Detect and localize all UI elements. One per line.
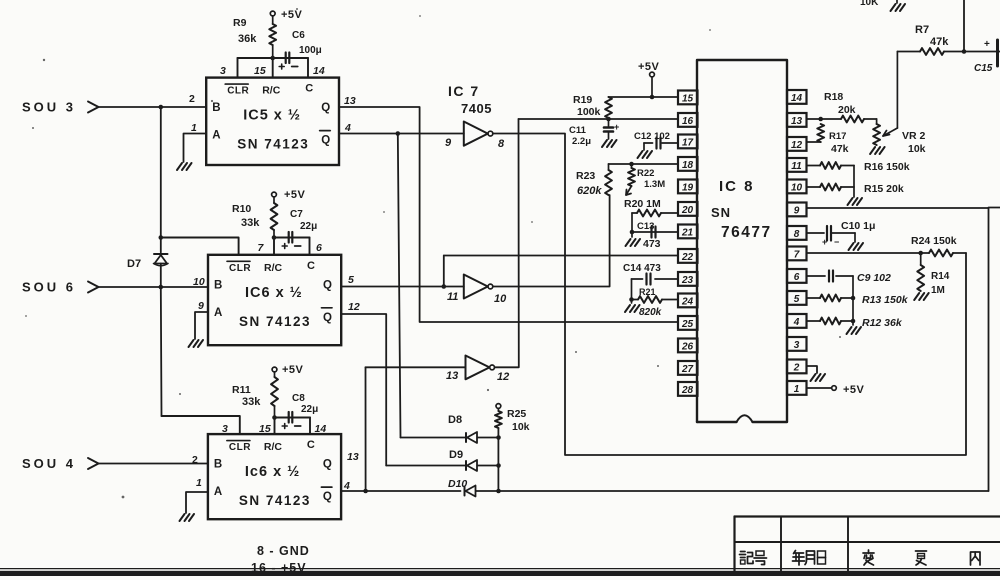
- svg-text:25: 25: [681, 319, 694, 330]
- svg-text:20k: 20k: [838, 104, 856, 116]
- svg-text:47k: 47k: [930, 36, 949, 48]
- svg-text:22μ: 22μ: [301, 404, 318, 415]
- svg-text:R20 1M: R20 1M: [624, 198, 661, 210]
- svg-text:Ic6 x ½: Ic6 x ½: [245, 464, 300, 480]
- svg-text:36k: 36k: [238, 33, 257, 45]
- svg-text:8 - GND: 8 - GND: [257, 544, 310, 558]
- svg-text:+5V: +5V: [638, 61, 660, 73]
- svg-text:5: 5: [348, 274, 354, 286]
- svg-text:C: C: [305, 83, 313, 95]
- svg-text:21: 21: [681, 228, 694, 239]
- svg-text:R24 150k: R24 150k: [911, 235, 957, 247]
- svg-text:Q: Q: [323, 491, 332, 503]
- svg-text:1M: 1M: [931, 285, 945, 296]
- svg-text:23: 23: [681, 275, 694, 286]
- svg-text:C: C: [307, 439, 315, 451]
- svg-text:3: 3: [222, 423, 228, 435]
- svg-text:13: 13: [791, 116, 803, 127]
- svg-text:14: 14: [313, 65, 325, 77]
- svg-text:22μ: 22μ: [300, 221, 317, 232]
- svg-text:SN 74123: SN 74123: [239, 314, 311, 329]
- svg-text:8: 8: [498, 138, 505, 150]
- svg-text:R/C: R/C: [264, 262, 283, 274]
- svg-text:R7: R7: [915, 24, 929, 36]
- svg-text:R11: R11: [232, 384, 251, 396]
- svg-text:7: 7: [794, 250, 800, 261]
- svg-text:18: 18: [682, 160, 694, 171]
- svg-text:B: B: [214, 459, 222, 471]
- svg-text:2: 2: [793, 363, 800, 374]
- svg-text:13: 13: [446, 370, 458, 382]
- svg-text:SOU 3: SOU 3: [22, 100, 76, 115]
- svg-text:28: 28: [681, 385, 694, 396]
- svg-text:+5V: +5V: [284, 189, 306, 201]
- svg-text:1: 1: [794, 384, 800, 395]
- svg-text:R21: R21: [639, 287, 656, 297]
- svg-text:473: 473: [643, 238, 661, 250]
- svg-text:IC5 x ½: IC5 x ½: [243, 108, 301, 124]
- svg-text:33k: 33k: [241, 217, 260, 229]
- svg-text:20: 20: [681, 205, 694, 216]
- svg-text:R12 36k: R12 36k: [862, 317, 903, 329]
- svg-text:24: 24: [681, 297, 694, 308]
- svg-text:+5V: +5V: [282, 364, 304, 376]
- svg-text:+: +: [984, 39, 990, 50]
- svg-text:SN: SN: [711, 205, 731, 220]
- svg-text:620k: 620k: [577, 185, 602, 197]
- svg-text:+5V: +5V: [281, 9, 303, 21]
- svg-text:2: 2: [192, 454, 198, 466]
- svg-text:R14: R14: [931, 271, 950, 282]
- svg-text:R/C: R/C: [262, 85, 281, 97]
- svg-text:C6: C6: [292, 30, 305, 41]
- svg-text:2: 2: [189, 93, 195, 105]
- svg-text:C12 102: C12 102: [634, 131, 670, 142]
- svg-text:9: 9: [198, 300, 204, 312]
- svg-text:C13: C13: [637, 221, 654, 232]
- svg-text:10k: 10k: [908, 143, 926, 155]
- svg-text:47k: 47k: [831, 143, 849, 155]
- svg-text:D9: D9: [449, 449, 463, 461]
- svg-text:+: +: [822, 237, 827, 247]
- svg-text:14: 14: [315, 423, 327, 435]
- svg-text:C8: C8: [292, 393, 305, 404]
- svg-text:17: 17: [682, 138, 694, 149]
- svg-text:Q: Q: [321, 135, 330, 147]
- svg-text:R10: R10: [232, 203, 251, 215]
- svg-text:CLR: CLR: [227, 86, 249, 97]
- svg-text:14: 14: [791, 93, 803, 104]
- svg-text:5: 5: [794, 294, 800, 305]
- svg-text:1.3M: 1.3M: [644, 179, 665, 190]
- svg-text:R13 150k: R13 150k: [862, 294, 909, 306]
- svg-text:11: 11: [447, 291, 458, 303]
- svg-text:R17: R17: [829, 131, 846, 142]
- svg-text:11: 11: [791, 161, 802, 172]
- svg-text:R25: R25: [507, 408, 526, 420]
- svg-text:SOU 6: SOU 6: [22, 280, 76, 295]
- svg-text:SN 74123: SN 74123: [239, 493, 311, 508]
- svg-text:R9: R9: [233, 17, 247, 29]
- svg-text:15: 15: [259, 423, 271, 435]
- svg-text:+5V: +5V: [843, 384, 865, 396]
- svg-text:10: 10: [791, 183, 803, 194]
- svg-text:Q: Q: [323, 459, 332, 471]
- svg-text:IC6 x ½: IC6 x ½: [245, 285, 303, 301]
- svg-text:SN 74123: SN 74123: [237, 137, 309, 152]
- svg-text:2.2μ: 2.2μ: [572, 136, 591, 147]
- svg-text:D7: D7: [127, 258, 141, 270]
- svg-text:10: 10: [494, 293, 507, 305]
- svg-text:3: 3: [220, 65, 226, 77]
- svg-text:9: 9: [794, 206, 800, 217]
- svg-text:CLR: CLR: [229, 442, 251, 453]
- svg-text:C10 1μ: C10 1μ: [841, 220, 875, 232]
- svg-text:27: 27: [681, 364, 694, 375]
- svg-text:D8: D8: [448, 414, 462, 426]
- svg-text:3: 3: [794, 340, 800, 351]
- svg-text:C15: C15: [974, 63, 993, 74]
- svg-text:4: 4: [793, 317, 800, 328]
- svg-text:10k: 10k: [512, 421, 530, 433]
- svg-text:+: +: [614, 122, 619, 132]
- svg-text:C14 473: C14 473: [623, 263, 661, 274]
- svg-text:A: A: [214, 486, 222, 498]
- svg-text:Q: Q: [321, 102, 330, 114]
- svg-text:26: 26: [681, 342, 694, 353]
- svg-text:SOU 4: SOU 4: [22, 456, 76, 471]
- svg-text:R19: R19: [573, 94, 592, 106]
- svg-text:−: −: [834, 237, 839, 247]
- svg-text:12: 12: [791, 140, 803, 151]
- svg-text:9: 9: [445, 137, 452, 149]
- svg-text:12: 12: [348, 301, 360, 313]
- svg-text:A: A: [214, 307, 222, 319]
- svg-text:A: A: [212, 130, 220, 142]
- svg-text:22: 22: [681, 252, 694, 263]
- svg-text:8: 8: [794, 229, 800, 240]
- svg-text:R22: R22: [637, 168, 654, 179]
- svg-text:820k: 820k: [639, 307, 662, 318]
- svg-text:R18: R18: [824, 91, 843, 103]
- svg-text:R/C: R/C: [264, 441, 283, 453]
- svg-text:4: 4: [344, 122, 351, 134]
- svg-text:1: 1: [191, 122, 197, 134]
- svg-text:C: C: [307, 260, 315, 272]
- svg-text:16: 16: [682, 116, 694, 127]
- svg-text:15: 15: [254, 65, 266, 77]
- svg-text:R16 150k: R16 150k: [864, 161, 910, 173]
- svg-text:Q: Q: [323, 312, 332, 324]
- svg-text:19: 19: [682, 183, 694, 194]
- svg-text:B: B: [214, 279, 222, 291]
- svg-text:100μ: 100μ: [299, 45, 322, 56]
- svg-text:10K: 10K: [860, 0, 879, 8]
- svg-text:Q: Q: [323, 279, 332, 291]
- svg-text:CLR: CLR: [229, 263, 251, 274]
- svg-text:33k: 33k: [242, 396, 261, 408]
- svg-text:13: 13: [347, 451, 359, 463]
- svg-text:6: 6: [316, 242, 322, 254]
- svg-text:12: 12: [497, 371, 509, 383]
- svg-text:76477: 76477: [721, 224, 772, 241]
- svg-text:D10: D10: [448, 478, 467, 490]
- svg-text:7405: 7405: [461, 101, 492, 116]
- svg-text:C11: C11: [569, 125, 587, 136]
- svg-text:IC 7: IC 7: [448, 83, 480, 99]
- svg-text:VR 2: VR 2: [902, 130, 926, 142]
- svg-text:15: 15: [682, 94, 694, 105]
- svg-text:IC 8: IC 8: [719, 178, 755, 195]
- svg-text:1: 1: [196, 477, 202, 489]
- svg-text:C9 102: C9 102: [857, 272, 891, 284]
- svg-text:B: B: [212, 102, 220, 114]
- svg-text:10: 10: [193, 276, 205, 288]
- svg-text:100k: 100k: [577, 106, 601, 118]
- svg-text:6: 6: [794, 272, 800, 283]
- svg-text:R23: R23: [576, 170, 595, 182]
- svg-text:13: 13: [344, 95, 356, 107]
- svg-text:R15 20k: R15 20k: [864, 183, 904, 195]
- svg-text:C7: C7: [290, 209, 303, 220]
